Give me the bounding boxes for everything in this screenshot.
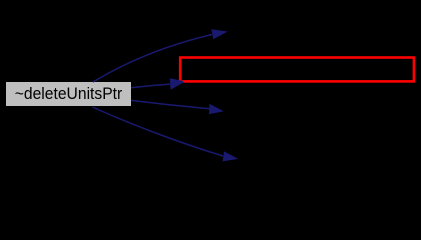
wire edge3 to middle callee (131, 100, 209, 108)
node truncated red callee (180, 58, 414, 82)
wire edge2 to red truncated node (131, 84, 170, 88)
node ~deleteUnitsPtr (6, 82, 131, 106)
svg-text:~deleteUnitsPtr: ~deleteUnitsPtr (15, 85, 123, 103)
arrowhead edge3 (209, 104, 224, 114)
arrowhead edge1 (211, 29, 227, 39)
arrowhead edge2 (170, 78, 184, 90)
arrowhead edge4 (223, 151, 239, 161)
wire edge4 to bottom callee (93, 107, 224, 156)
wire edge1 to top callee (93, 35, 212, 83)
